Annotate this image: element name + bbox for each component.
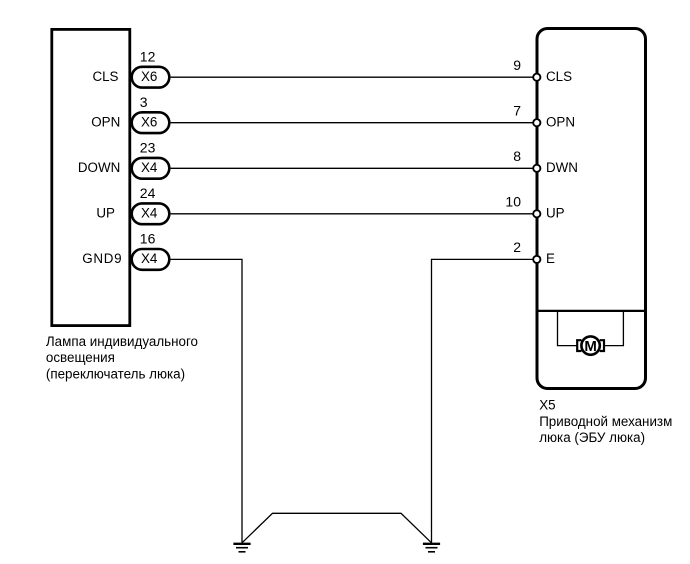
motor branch wires (558, 311, 624, 346)
wire OPN (171, 122, 533, 124)
pin number 2 (513, 239, 521, 255)
svg-text:X4: X4 (141, 160, 158, 175)
svg-text:M: M (584, 338, 597, 355)
ECU box caption: X5 Приводной механизм люка (ЭБУ люка) (539, 397, 672, 445)
svg-text:X5: X5 (539, 397, 555, 412)
wire ground bridge (242, 513, 432, 543)
svg-text:2: 2 (513, 239, 521, 255)
connector X4 pin 24 (UP) (132, 203, 170, 224)
svg-text:23: 23 (140, 139, 156, 155)
svg-text:Лампа индивидуального: Лампа индивидуального (46, 334, 198, 349)
ECU internal separator line (537, 310, 646, 312)
svg-text:7: 7 (513, 103, 521, 119)
ECU label CLS (546, 69, 572, 84)
svg-text:OPN: OPN (91, 114, 120, 129)
pin number 10 (505, 194, 521, 210)
svg-text:9: 9 (513, 57, 521, 73)
svg-text:3: 3 (140, 94, 148, 110)
svg-text:24: 24 (140, 185, 156, 201)
svg-text:освещения: освещения (46, 350, 115, 365)
pin number 23 (140, 139, 156, 155)
pin number 3 (140, 94, 148, 110)
svg-text:X4: X4 (141, 251, 158, 266)
wire DOWN-DWN (171, 167, 533, 169)
svg-text:X6: X6 (141, 69, 157, 84)
svg-text:DWN: DWN (546, 160, 578, 175)
ground symbol right (423, 544, 440, 552)
pin number 16 (140, 231, 156, 247)
switch label DOWN (78, 160, 120, 175)
switch label CLS (92, 69, 118, 84)
svg-text:GND9: GND9 (82, 251, 122, 266)
pin number 8 (513, 148, 521, 164)
switch label UP (96, 206, 115, 221)
ECU label DWN (546, 160, 578, 175)
svg-text:OPN: OPN (546, 114, 575, 129)
svg-text:16: 16 (140, 231, 156, 247)
wire GND9 to ground (171, 259, 242, 542)
svg-text:CLS: CLS (92, 69, 118, 84)
pin number 24 (140, 185, 156, 201)
svg-text:X6: X6 (141, 114, 157, 129)
svg-text:UP: UP (96, 206, 115, 221)
ECU pin 8 terminal (533, 165, 540, 172)
ground symbol left (233, 544, 250, 552)
switch label GND9 (82, 251, 122, 266)
pin number 12 (140, 48, 156, 64)
pin number 7 (513, 103, 521, 119)
svg-text:12: 12 (140, 48, 156, 64)
ECU label OPN (546, 114, 575, 129)
switch box caption: Лампа индивидуального освещения (переключатель люка) (46, 334, 198, 382)
ECU pin 7 terminal (533, 119, 540, 126)
connector X6 pin 12 (CLS) (132, 67, 170, 88)
switch label OPN (91, 114, 120, 129)
svg-text:X4: X4 (141, 206, 158, 221)
connector X4 pin 16 (GND9) (132, 249, 170, 270)
wire UP (171, 213, 533, 215)
wire E to ground (432, 259, 534, 542)
ECU pin 2 terminal (533, 256, 540, 263)
motor M (577, 336, 604, 355)
ECU label UP (546, 206, 565, 221)
ECU pin 9 terminal (533, 74, 540, 81)
svg-text:(переключатель люка): (переключатель люка) (46, 366, 185, 381)
wire CLS (171, 76, 533, 78)
ECU pin 10 terminal (533, 210, 540, 217)
connector X6 pin 3 (OPN) (132, 112, 170, 133)
ECU box X5 (sunroof drive mechanism) (537, 29, 646, 389)
svg-text:UP: UP (546, 206, 565, 221)
svg-text:люка (ЭБУ люка): люка (ЭБУ люка) (539, 430, 645, 445)
svg-text:CLS: CLS (546, 69, 572, 84)
pin number 9 (513, 57, 521, 73)
ECU label E (546, 251, 555, 266)
svg-text:Приводной механизм: Приводной механизм (539, 414, 672, 429)
connector X4 pin 23 (DOWN) (132, 158, 170, 179)
switch box (lamp / sunroof switch) (52, 29, 130, 325)
svg-text:DOWN: DOWN (78, 160, 120, 175)
svg-text:8: 8 (513, 148, 521, 164)
svg-text:E: E (546, 251, 555, 266)
svg-text:10: 10 (505, 194, 521, 210)
